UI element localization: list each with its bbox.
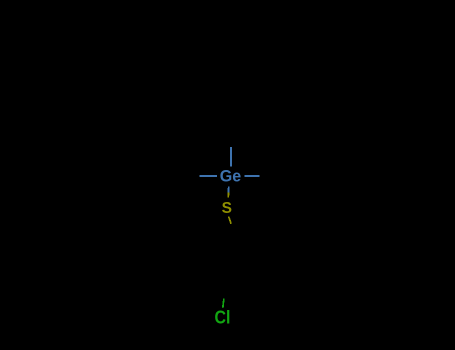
svg-text:Cl: Cl xyxy=(215,308,231,328)
wire Ge-S bond upper half (Ge colored) xyxy=(228,186,230,192)
wire methyl bond up from Ge xyxy=(230,147,232,166)
wire methyl bond left of Ge xyxy=(199,175,217,177)
wire ring to Cl stub (Cl colored) xyxy=(223,298,224,307)
svg-text:Ge: Ge xyxy=(220,167,241,186)
svg-text:S: S xyxy=(222,200,232,217)
wire S to ring stub (S colored) xyxy=(229,217,232,224)
wire Ge-S bond lower half (S colored) xyxy=(227,192,229,197)
wire methyl bond right of Ge xyxy=(244,175,259,177)
